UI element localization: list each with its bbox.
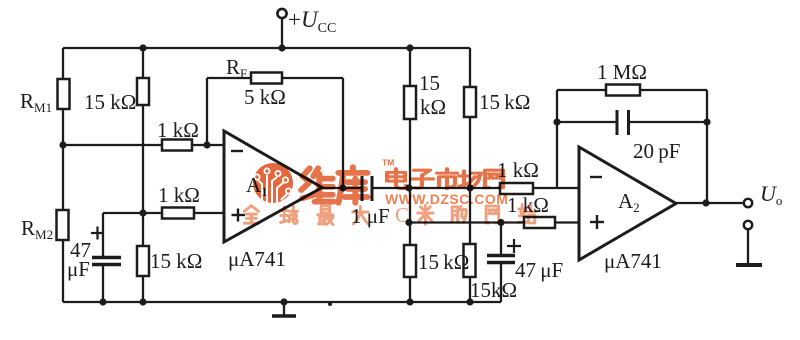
svg-text:RM1: RM1: [20, 89, 52, 115]
wire A2 non-inverting input net: [409, 221, 579, 223]
watermark char shi: [437, 169, 457, 189]
wire RF feedback top: [207, 77, 343, 79]
resistor R9 1k (to A2 inverting input): [500, 183, 533, 194]
junction C1 / bottom rail: [99, 298, 106, 305]
svg-text:RM2: RM2: [21, 216, 53, 242]
junction x470 / A1 output: [466, 184, 473, 191]
junction x410 / A2 plus net: [405, 219, 412, 226]
wire A2 output to Uo: [675, 202, 744, 204]
op-amp A1 minus pin marker: [231, 150, 243, 152]
wire bottom ground rail: [63, 301, 501, 303]
resistor R11 1M (A2 feedback): [606, 85, 640, 96]
watermark char dian: [387, 169, 406, 189]
svg-text:+UCC: +UCC: [288, 7, 336, 36]
wire 15k divider branch x=143: [142, 48, 144, 302]
junction C5 left / feedback: [553, 118, 560, 125]
svg-text:kΩ: kΩ: [420, 95, 446, 119]
svg-text:1 kΩ: 1 kΩ: [507, 193, 549, 217]
wire C5 left lead: [557, 121, 617, 123]
output terminal Uo lower open circle: [744, 221, 752, 229]
op-amp A1 plus pin marker: [232, 214, 246, 216]
wire top supply rail: [63, 47, 470, 49]
resistor R5 15k (top of x=410 branch): [404, 86, 416, 119]
junction ground / bottom rail: [280, 298, 287, 305]
watermark char gou2: [451, 206, 466, 222]
wire C1 bottom lead: [102, 265, 104, 302]
wire A2 feedback left vertical: [556, 90, 558, 188]
junction x143 / A1 plus net: [139, 209, 146, 216]
op-amp A1 triangle: [224, 131, 322, 242]
watermark char zui: [318, 206, 333, 225]
watermark char zhan2: [519, 205, 536, 223]
ground (bottom rail): [283, 302, 285, 315]
svg-text:1 kΩ: 1 kΩ: [157, 118, 199, 142]
resistor R10 1k (to A2 non-inverting input): [524, 217, 555, 228]
svg-text:μA741: μA741: [228, 247, 286, 271]
wire A2 feedback right vertical: [706, 90, 708, 203]
svg-text:15 kΩ: 15 kΩ: [418, 250, 469, 274]
svg-text:μF: μF: [67, 257, 90, 281]
junction feedback / A2 output: [702, 199, 709, 206]
svg-text:1 MΩ: 1 MΩ: [597, 60, 647, 84]
wire C1 top lead: [102, 213, 104, 257]
svg-text:20 pF: 20 pF: [633, 139, 680, 163]
wire A2 feedback top (R 1M): [557, 89, 707, 91]
svg-text:1 kΩ: 1 kΩ: [158, 183, 200, 207]
junction x143 / top rail: [139, 44, 146, 51]
resistor R1 15k (top of x=143 branch): [137, 78, 149, 105]
wire divider branch x=470: [469, 48, 471, 302]
op-amp A2 minus pin marker: [590, 176, 602, 178]
resistor RM1 (vertical, left): [58, 79, 70, 109]
resistor R6 15k (top of x=470 branch): [464, 87, 476, 117]
watermark logo circuit tree: [254, 168, 291, 205]
svg-text:RF: RF: [226, 55, 247, 81]
junction x143 / bottom rail: [139, 298, 146, 305]
watermark char da: [353, 206, 368, 224]
resistor R2 15k (bottom of x=143 branch): [137, 246, 149, 276]
junction x410 / bottom rail: [406, 298, 413, 305]
wire left rail (RM1/RM2 branch): [62, 48, 64, 302]
wire +Ucc stub: [281, 18, 283, 49]
junction x470 / bottom rail: [466, 298, 473, 305]
svg-text:15 kΩ: 15 kΩ: [84, 90, 136, 114]
watermark char qiu: [281, 206, 298, 223]
svg-text:μA741: μA741: [604, 249, 662, 273]
junction C4 / A2 plus net: [497, 219, 504, 226]
capacitor C3 1uF (series coupling): [361, 176, 364, 201]
svg-text:15 kΩ: 15 kΩ: [150, 249, 202, 273]
wire divider branch x=410: [409, 48, 411, 302]
junction C5 right / feedback: [703, 118, 710, 125]
watermark logo circle: [253, 163, 293, 203]
wire A1 output to C3: [320, 187, 362, 189]
svg-text:5 kΩ: 5 kΩ: [244, 85, 286, 109]
capacitor C1 polarity plus sign: [91, 232, 104, 234]
wire A1 non-inverting input net: [103, 212, 224, 214]
capacitor C4 polarity plus sign: [507, 245, 521, 247]
resistor R4 1k (to A1 non-inverting input): [162, 208, 194, 219]
junction speck on bottom rail: [328, 302, 332, 306]
junction x410 / A1 output: [405, 184, 412, 191]
svg-text:47 μF: 47 μF: [515, 258, 563, 282]
watermark char chang: [459, 171, 481, 189]
watermark char zi: [411, 170, 433, 188]
junction x410 / top rail: [406, 44, 413, 51]
capacitor C4 47uF (polarized, right): [487, 254, 515, 258]
watermark char quan: [244, 206, 258, 224]
wire RF feedback left vertical: [206, 78, 208, 145]
wire C3 to A2 inverting input: [372, 187, 579, 189]
svg-text:15: 15: [419, 71, 440, 95]
svg-text:Uo: Uo: [760, 181, 782, 208]
wire C4 bottom lead: [500, 263, 502, 302]
watermark char wang: [485, 170, 503, 188]
resistor R3 1k (to A1 inverting input): [162, 140, 192, 151]
wire C5 right lead: [629, 121, 708, 123]
svg-text:C: C: [395, 203, 409, 227]
ground (output terminal): [736, 263, 762, 267]
wire A1 inverting input net: [63, 144, 224, 146]
capacitor C5 20pF (A2 feedback): [616, 110, 619, 135]
junction left rail / A1 minus net: [59, 141, 66, 148]
resistor R8 15k (bottom of x=470 branch): [464, 244, 476, 277]
watermark char cai2: [418, 205, 433, 224]
junction RF / A1 output: [339, 184, 346, 191]
op-amp A2 plus pin marker: [590, 221, 604, 223]
wire Uo lower terminal to ground: [747, 229, 749, 263]
resistor RF 5k (A1 feedback): [251, 73, 282, 84]
resistor RM2 (vertical, left): [57, 210, 69, 240]
output terminal Uo upper open circle: [744, 199, 752, 207]
svg-text:15kΩ: 15kΩ: [470, 278, 517, 302]
svg-text:A2: A2: [618, 189, 640, 215]
wire RF feedback right vertical: [342, 78, 344, 188]
capacitor C1 47uF (polarized, left): [92, 256, 121, 260]
wire C4 top lead: [500, 223, 502, 256]
op-amp A2 triangle: [579, 147, 676, 260]
svg-text:15 kΩ: 15 kΩ: [479, 90, 530, 114]
junction RF / A1 minus net: [203, 141, 210, 148]
svg-text:1 μF: 1 μF: [351, 204, 390, 228]
svg-text:TM: TM: [382, 158, 394, 168]
watermark char wei (big): [301, 168, 334, 201]
junction Ucc stub / top rail: [278, 44, 285, 51]
power terminal +Ucc open circle: [277, 9, 286, 18]
watermark char wang2: [486, 206, 499, 223]
resistor R7 15k (bottom of x=410 branch): [404, 245, 416, 277]
watermark char ku (big): [338, 167, 367, 203]
